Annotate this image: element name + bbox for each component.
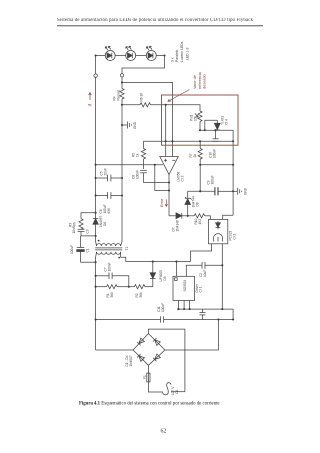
zener D8 xyxy=(185,191,192,216)
node C1 rail xyxy=(95,261,97,263)
svg-text:Error: Error xyxy=(160,198,164,207)
ac source 127V xyxy=(163,383,172,395)
svg-text:1K2: 1K2 xyxy=(198,219,202,225)
wire R6 to pot xyxy=(151,105,201,111)
IC notch mark xyxy=(175,278,178,281)
svg-text:1N4007: 1N4007 xyxy=(129,355,133,366)
svg-text:CI 3: CI 3 xyxy=(181,175,185,181)
label LM358 CI3 xyxy=(177,172,185,182)
wire vcc aux line xyxy=(126,261,190,263)
transformer T1 primary winding xyxy=(97,244,121,246)
svg-text:R6 1K: R6 1K xyxy=(140,92,144,102)
node out-sense xyxy=(95,164,97,166)
connector J1 xyxy=(94,74,97,77)
svg-text:Paralelo: Paralelo xyxy=(175,49,179,62)
resistor R3 xyxy=(79,219,83,230)
svg-text:3 x: 3 x xyxy=(170,57,174,62)
bridge rectifier D1-D4 xyxy=(133,334,165,366)
svg-text:CA: CA xyxy=(175,389,179,394)
wire sense horizontal xyxy=(96,164,163,166)
wire C1 to rail xyxy=(81,261,96,263)
node bus opto xyxy=(221,308,223,310)
svg-text:Sistema de alimentación para L: Sistema de alimentación para LEDs de pot… xyxy=(57,18,254,23)
label D7 1N4148 xyxy=(171,220,179,231)
node C7 rail xyxy=(95,275,97,277)
resistor R4 xyxy=(120,89,124,100)
svg-text:Rsense: Rsense xyxy=(117,89,121,100)
label C2 10uF xyxy=(199,270,207,277)
svg-text:100nF: 100nF xyxy=(136,170,140,179)
node C2 emitter join xyxy=(221,264,223,266)
svg-text:Figura 4.1 Esquemático del sis: Figura 4.1 Esquemático del sistema con c… xyxy=(79,402,220,407)
wire source to riser xyxy=(172,384,174,386)
ground GND control xyxy=(233,187,247,195)
fuse F1 xyxy=(147,373,150,382)
LED D10 xyxy=(126,46,136,60)
label Pot1 10k xyxy=(190,114,198,121)
node C6 right xyxy=(121,194,123,196)
svg-text:100nF: 100nF xyxy=(161,303,165,312)
svg-text:1k: 1k xyxy=(136,153,140,157)
red label Valor de referencia deseado xyxy=(193,71,206,89)
wire plus input vertical xyxy=(165,105,167,157)
wire LED return right xyxy=(122,56,165,74)
node rail-ref xyxy=(232,140,234,142)
opto internal transistor xyxy=(214,234,223,242)
node C5 right xyxy=(121,177,123,179)
wire pot wiper loop xyxy=(205,120,218,130)
svg-text:47k: 47k xyxy=(73,221,77,227)
label R1 xyxy=(106,292,114,298)
op-amp plus sign xyxy=(164,159,167,162)
wire opto emitter pin xyxy=(221,244,223,309)
label R10 1K2 xyxy=(194,218,202,224)
label C11 xyxy=(157,303,165,312)
node feedback join xyxy=(168,189,170,191)
svg-text:10nF: 10nF xyxy=(72,226,76,233)
transformer T1 core xyxy=(95,248,122,250)
node bus pin1 xyxy=(178,308,180,310)
resistor R2 xyxy=(129,285,153,289)
svg-text:Valor de: Valor de xyxy=(193,75,197,89)
node comp join xyxy=(168,181,170,183)
capacitor C1 electrolytic xyxy=(77,236,85,262)
node rail bridge xyxy=(217,318,219,320)
wire LED string top xyxy=(96,55,165,57)
resistor R7 xyxy=(198,141,202,191)
capacitor C7 xyxy=(96,273,116,280)
label D8 1N4744 xyxy=(192,196,200,207)
label TL431 CI4 xyxy=(220,116,228,125)
wire ac right xyxy=(171,391,185,393)
wire pot bottom xyxy=(199,122,201,131)
svg-text:D5: D5 xyxy=(163,276,167,280)
diode D6 xyxy=(93,218,98,241)
svg-text:C1: C1 xyxy=(86,248,90,252)
wire rail to bridge xyxy=(165,320,219,351)
op-amp minus sign xyxy=(172,159,175,161)
svg-text:22uF: 22uF xyxy=(104,168,108,175)
svg-text:63V: 63V xyxy=(107,207,111,214)
node R4 top tap xyxy=(121,81,123,83)
label R2 xyxy=(135,292,143,298)
svg-text:T1: T1 xyxy=(125,246,129,250)
wire left rail upper xyxy=(95,56,97,74)
svg-text:100nF: 100nF xyxy=(107,262,111,271)
optocoupler CI2 PC923 xyxy=(209,219,228,243)
svg-text:56k: 56k xyxy=(139,292,143,298)
node GND tap xyxy=(121,124,123,126)
node C5 left xyxy=(95,177,97,179)
label D5 UF4005 xyxy=(159,270,167,282)
node R1 rail xyxy=(95,286,97,288)
svg-text:GND: GND xyxy=(133,121,137,129)
resistor R10 xyxy=(188,214,211,218)
label PC923 CI2 xyxy=(229,231,237,241)
label C7 100nF xyxy=(103,262,111,271)
node R2-R1 xyxy=(128,286,130,288)
label CI 1 xyxy=(195,283,203,292)
node D7 out xyxy=(187,215,189,217)
wire bottom rail right xyxy=(164,319,234,321)
label C5 22uF xyxy=(100,168,108,175)
svg-text:D8: D8 xyxy=(196,202,200,206)
wire snubber top xyxy=(81,213,96,219)
wire sense2 horizontal xyxy=(200,164,233,166)
svg-text:GND: GND xyxy=(243,187,247,195)
node rail-sense2 xyxy=(232,164,234,166)
red arrow If xyxy=(89,93,92,101)
label R4 Rsense xyxy=(112,89,120,100)
pot arrow xyxy=(195,114,198,118)
label C9 100uF xyxy=(207,175,215,184)
wire fuse to source xyxy=(148,382,163,392)
node ref-plus xyxy=(165,140,167,142)
svg-text:CI 1: CI 1 xyxy=(199,286,203,292)
node C10 top xyxy=(214,129,216,131)
label C6 100uF 63V xyxy=(99,204,111,213)
svg-text:F1: F1 xyxy=(143,375,147,379)
capacitor C5 xyxy=(96,175,122,182)
node plus input junction xyxy=(165,104,167,106)
resistor R1 xyxy=(96,285,129,289)
wire IC pins bottom xyxy=(179,301,190,310)
svg-text:CI 2: CI 2 xyxy=(233,233,237,239)
op-amp U3 LM358 xyxy=(160,157,179,175)
svg-text:referencia: referencia xyxy=(198,71,202,89)
wire left rail middle xyxy=(95,77,97,218)
svg-text:Luxeon LEDs: Luxeon LEDs xyxy=(180,41,184,62)
wire left rail lower xyxy=(95,258,97,351)
wire minus input feed xyxy=(122,82,173,156)
node ref-R7 xyxy=(199,140,201,142)
wire bus xyxy=(177,308,233,310)
label C10 100nF xyxy=(209,149,217,158)
node bus pin3 xyxy=(189,308,191,310)
label R7 2k xyxy=(189,153,197,157)
wire to R6 xyxy=(122,104,140,106)
label C3 10nF xyxy=(72,226,89,233)
node rail bus corner xyxy=(232,318,234,320)
wire winding stubs xyxy=(96,242,122,258)
node ref-minus xyxy=(171,140,173,142)
wire comp horizontal xyxy=(144,182,170,184)
red label If xyxy=(88,103,93,106)
resistor R6 xyxy=(140,103,151,107)
capacitor C2 xyxy=(202,262,222,269)
svg-text:100uF: 100uF xyxy=(70,245,74,254)
potentiometer Pot1 xyxy=(198,111,202,122)
capacitor C9 xyxy=(215,187,233,195)
diode D7 xyxy=(169,213,188,219)
LED D9 xyxy=(105,46,115,60)
node aux-D5 xyxy=(152,261,154,263)
diode D5 xyxy=(150,262,156,287)
svg-text:LED 1-3: LED 1-3 xyxy=(186,47,190,60)
capacitor C3 xyxy=(78,229,85,231)
wire bottom rail left xyxy=(96,319,161,321)
svg-text:CI 4: CI 4 xyxy=(224,119,228,125)
wire bridge top AC route xyxy=(148,329,185,392)
transformer phase dot top xyxy=(98,240,100,242)
opto internal LED xyxy=(216,221,221,229)
wire bridge left to rail xyxy=(96,349,134,351)
svg-text:2k: 2k xyxy=(193,154,197,158)
capacitor C8 xyxy=(140,170,147,182)
wire bus corner down xyxy=(232,309,234,319)
label SG3524 xyxy=(183,280,187,292)
connector J2 xyxy=(120,74,123,77)
label D1-D4 1N4007 xyxy=(125,355,133,366)
transformer T1 secondary winding xyxy=(97,252,121,254)
svg-text:SG3524: SG3524 xyxy=(183,280,187,292)
node snubber top xyxy=(95,212,97,214)
header rule xyxy=(57,25,263,27)
capacitor C6 xyxy=(96,192,122,199)
capacitor Ct bus xyxy=(200,309,206,319)
wire C7 jog xyxy=(115,276,128,287)
wire sense feedback drop xyxy=(155,165,169,191)
label 1N4937 D6 xyxy=(99,216,107,227)
wire TL431 cathode line xyxy=(200,129,233,131)
wire secondary right jog xyxy=(121,257,126,261)
svg-text:62: 62 xyxy=(161,429,167,435)
svg-text:1N4148: 1N4148 xyxy=(175,220,179,231)
red label Error xyxy=(160,198,164,207)
label C1 100uF xyxy=(70,245,89,254)
node sense tap xyxy=(154,164,156,166)
wire op-amp output xyxy=(168,175,170,216)
shunt regulator TL431 xyxy=(214,120,220,130)
svg-text:deseado: deseado xyxy=(203,74,207,89)
svg-text:C3: C3 xyxy=(85,229,89,233)
transformer phase dot bottom xyxy=(118,257,120,259)
node aux-pin xyxy=(175,261,177,263)
node rail-gnd xyxy=(232,190,234,192)
svg-text:100uF: 100uF xyxy=(211,175,215,184)
node R6 tap xyxy=(121,104,123,106)
node snubber bottom xyxy=(95,235,97,237)
svg-text:100nF: 100nF xyxy=(213,149,217,158)
resistor R5 xyxy=(141,141,145,169)
node wiper join xyxy=(204,129,206,131)
wire right rail x122 xyxy=(121,99,123,242)
wire opto pin anode xyxy=(210,216,212,220)
LED D11 xyxy=(146,46,156,60)
node rail left xyxy=(95,318,97,320)
wire to R4 xyxy=(121,77,123,88)
label R5 1k xyxy=(132,153,140,157)
svg-text:10k: 10k xyxy=(194,115,198,121)
node LED cathode right xyxy=(163,54,165,56)
wire opto out pin xyxy=(191,244,212,262)
wire right rail xyxy=(232,130,234,215)
wire IC pin top1 xyxy=(175,262,177,277)
svg-text:10uF: 10uF xyxy=(203,270,207,277)
capacitor C10 xyxy=(213,130,219,141)
node R7-sense2 xyxy=(199,164,201,166)
ground GND secondary xyxy=(122,121,137,129)
node C6 left xyxy=(95,194,97,196)
wire reference line xyxy=(144,140,234,142)
svg-text:560: 560 xyxy=(110,292,114,298)
label 3 x Paralelo Luxeon LEDs LED 1-3 xyxy=(170,41,189,62)
PWM IC CI1 SG3524 xyxy=(173,276,195,300)
svg-text:If: If xyxy=(88,103,93,106)
node LED anode left xyxy=(95,54,97,56)
node gnd-R7 xyxy=(199,190,201,192)
label 127 V CA xyxy=(171,386,179,395)
wire gnd horizontal xyxy=(188,190,215,192)
svg-text:D6: D6 xyxy=(103,222,107,226)
node bus pin2 xyxy=(183,308,185,310)
label C8 100nF xyxy=(132,170,140,179)
node pot bottom xyxy=(199,129,201,131)
wire opto vcc pin xyxy=(223,215,233,219)
wire IC pin top2 xyxy=(186,265,202,276)
capacitor C11 rail xyxy=(161,316,164,323)
red arrow error xyxy=(165,200,167,207)
red arrow to reference node xyxy=(168,90,190,102)
wire bridge bottom to fuse xyxy=(147,365,149,373)
label R3 47k xyxy=(69,221,77,227)
red annotation box xyxy=(162,95,239,145)
wire snubber bottom xyxy=(81,232,96,236)
